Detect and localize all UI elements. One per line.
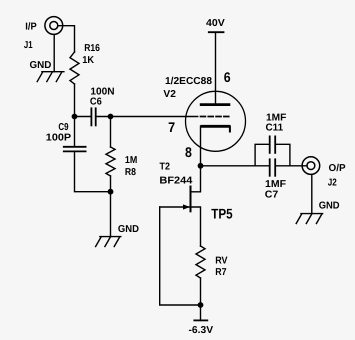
- svg-text:J2: J2: [328, 178, 337, 189]
- capacitor C9: [64, 147, 86, 152]
- transistor T2 source lead: [191, 207, 201, 246]
- wire J1 to ground: [53, 35, 55, 72]
- wire 40V to anode: [215, 32, 217, 104]
- svg-text:1/2ECC88: 1/2ECC88: [165, 76, 212, 87]
- wire C7 to J2: [275, 165, 307, 167]
- svg-text:C11: C11: [266, 122, 284, 133]
- wire C6 to node B: [96, 116, 111, 118]
- cathode right tick: [229, 126, 231, 131]
- transistor T2 gate arrow: [183, 204, 190, 209]
- resistor R8: [106, 147, 115, 176]
- connector J1: [45, 17, 63, 35]
- wire node B to R8: [110, 117, 112, 148]
- svg-text:-6.3V: -6.3V: [189, 325, 214, 336]
- power +40V rail: [208, 31, 225, 33]
- svg-text:J1: J1: [24, 40, 33, 51]
- capacitor C7: [270, 159, 276, 176]
- wire RV to node E: [200, 278, 202, 305]
- svg-text:GND: GND: [118, 224, 139, 235]
- svg-text:RV: RV: [215, 256, 228, 267]
- transistor T2 channel: [190, 187, 192, 212]
- svg-text:6: 6: [224, 69, 231, 85]
- svg-text:GND: GND: [319, 200, 340, 211]
- svg-text:8: 8: [185, 144, 192, 160]
- ground below R8: [96, 237, 121, 247]
- triode V2 anode: [200, 103, 231, 106]
- svg-text:C7: C7: [265, 190, 279, 201]
- transistor T2 gate wire: [160, 206, 191, 208]
- wire C11 to right branch: [275, 144, 290, 166]
- node A junction: [72, 114, 78, 120]
- svg-text:40V: 40V: [206, 18, 225, 29]
- ground below J2: [296, 214, 322, 224]
- wire J2 to ground: [311, 175, 313, 214]
- svg-text:1K: 1K: [82, 55, 95, 66]
- svg-text:V2: V2: [163, 89, 176, 100]
- wire node A to C6: [75, 116, 92, 118]
- svg-text:7: 7: [168, 119, 175, 135]
- wire J1 to R16: [58, 26, 75, 52]
- svg-text:GND: GND: [30, 60, 52, 71]
- power -6.3V rail: [193, 319, 208, 321]
- svg-text:1MF: 1MF: [265, 179, 286, 190]
- svg-text:R16: R16: [84, 43, 100, 54]
- ground below J1: [37, 72, 64, 82]
- svg-text:I/P: I/P: [25, 22, 37, 33]
- triode V2 envelope: [186, 91, 246, 151]
- svg-text:C6: C6: [90, 96, 102, 107]
- resistor R16: [70, 52, 79, 84]
- svg-text:100P: 100P: [46, 132, 72, 143]
- wire branch up to C11: [255, 144, 270, 166]
- connector J2: [302, 157, 320, 175]
- wire node A to C9: [74, 117, 76, 147]
- node E junction: [198, 302, 204, 308]
- resistor RV R7: [196, 246, 205, 278]
- svg-text:TP5: TP5: [211, 205, 233, 221]
- wire node D to C7: [201, 165, 270, 167]
- svg-text:BF244: BF244: [159, 175, 192, 186]
- transistor T2 drain lead: [191, 166, 201, 192]
- wire C9 to node C: [75, 151, 111, 191]
- capacitor C11: [270, 136, 276, 153]
- wire R8 to node C: [110, 176, 112, 192]
- triode V2 grid (dashed): [201, 116, 229, 118]
- node D junction: [198, 163, 204, 169]
- wire node B to grid of V2: [111, 116, 198, 118]
- wire cathode to node D: [200, 126, 202, 166]
- svg-text:R8: R8: [125, 167, 136, 178]
- svg-text:1M: 1M: [125, 155, 137, 166]
- node B junction: [108, 114, 114, 120]
- wire node C to ground: [110, 192, 112, 237]
- svg-text:O/P: O/P: [329, 163, 346, 174]
- capacitor C6: [91, 108, 95, 125]
- node C junction: [108, 189, 114, 195]
- wire R16 to node A: [74, 84, 76, 117]
- svg-text:R7: R7: [215, 267, 227, 278]
- wire node E to -6.3V rail: [200, 305, 202, 320]
- svg-text:T2: T2: [160, 162, 171, 173]
- wire gate return to node E: [160, 207, 201, 305]
- triode V2 cathode: [200, 125, 230, 128]
